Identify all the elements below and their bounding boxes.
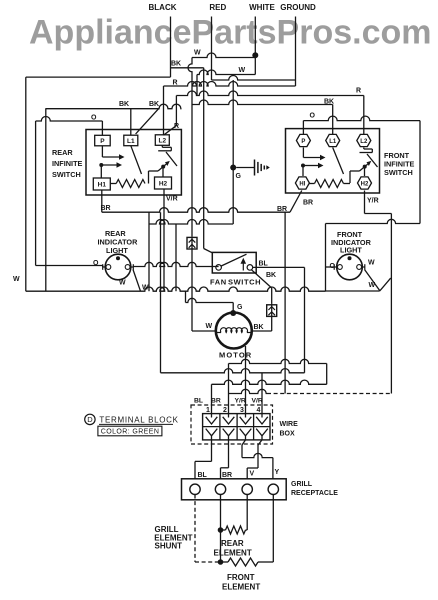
wire BR down from receptacle — [220, 495, 222, 563]
motor — [216, 313, 252, 349]
svg-text:BL: BL — [198, 472, 208, 479]
terminal H1 rear — [93, 178, 110, 190]
svg-text:P: P — [100, 138, 105, 145]
wire BK diagonal into rear L1 — [136, 109, 159, 134]
front switch resistor — [315, 180, 344, 188]
svg-text:TERMINAL BLOCK: TERMINAL BLOCK — [99, 416, 178, 425]
fan switch arrow — [242, 263, 244, 271]
wire WHITE drop — [254, 17, 256, 75]
node G junction dot — [230, 165, 236, 171]
svg-text:Y: Y — [275, 469, 280, 476]
svg-text:BLACK: BLACK — [149, 3, 177, 12]
rear switch L2 contact — [161, 145, 163, 147]
svg-text:L2: L2 — [360, 139, 368, 145]
wire line B upper — [229, 359, 327, 363]
junction dot front element — [218, 559, 224, 565]
ground symbol — [236, 167, 254, 169]
svg-text:W: W — [119, 280, 126, 287]
svg-text:GRILL: GRILL — [291, 481, 313, 488]
svg-text:WIRE: WIRE — [280, 421, 299, 428]
wire O stub front light — [326, 266, 335, 268]
wire R line to front L2 — [176, 91, 363, 95]
wire W2 white branch — [197, 70, 255, 75]
svg-text:L1: L1 — [329, 139, 337, 145]
wire Y/R from front H2 — [364, 191, 366, 214]
front switch P arm arrow — [302, 148, 304, 158]
terminal L1 rear — [124, 135, 138, 146]
wire v149 — [148, 212, 150, 291]
wire BL line A — [161, 369, 305, 373]
wire fan BK diagonal — [252, 270, 272, 288]
svg-text:R: R — [356, 88, 361, 95]
rear indicator light — [105, 254, 131, 280]
svg-text:L1: L1 — [127, 138, 135, 145]
wire BLACK drop — [170, 17, 172, 78]
wire BK left rail — [45, 108, 47, 291]
wire O left rail — [35, 121, 37, 266]
wire t3 to receptacle Y crossing — [242, 440, 246, 445]
rear switch blade from L1 — [131, 146, 142, 174]
wire drop O to P front — [302, 121, 304, 134]
terminal P rear — [95, 135, 111, 146]
svg-text:LIGHT: LIGHT — [106, 246, 128, 255]
svg-text:SWITCH: SWITCH — [228, 278, 261, 287]
svg-text:MOTOR: MOTOR — [219, 351, 252, 360]
wire box — [203, 414, 270, 440]
wire front light W diagonal — [365, 270, 380, 291]
wire ground horizontal A2 — [164, 82, 296, 87]
rear switch resistor — [116, 180, 145, 188]
terminal L1 front — [326, 134, 340, 146]
wire t4 drop — [261, 373, 263, 414]
svg-text:R: R — [173, 80, 178, 87]
wire W2 stub — [196, 75, 198, 96]
front switch H1 arm arrow — [301, 164, 305, 168]
svg-text:SHUNT: SHUNT — [155, 542, 183, 551]
junction dot rear element — [218, 527, 224, 533]
rear switch H2 arm arrow — [148, 171, 150, 184]
svg-text:BK: BK — [254, 324, 264, 331]
svg-text:H1: H1 — [98, 182, 107, 189]
wire BR bus — [102, 208, 290, 213]
svg-text:RECEPTACLE: RECEPTACLE — [291, 490, 338, 497]
svg-text:Y/R: Y/R — [367, 198, 379, 205]
svg-text:BR: BR — [303, 200, 313, 207]
svg-text:W: W — [206, 323, 213, 330]
wire O into rear light — [36, 265, 103, 267]
terminal L2 front — [357, 134, 371, 146]
wire W drop to motor — [188, 58, 192, 237]
wire drop BK to L1 rear — [130, 109, 132, 136]
svg-text:RED: RED — [209, 3, 226, 12]
rear infinite switch box — [86, 130, 181, 196]
svg-text:AppliancePartsPros.com: AppliancePartsPros.com — [29, 14, 431, 52]
wire fan BL drop — [304, 267, 306, 372]
terminal L2 rear — [155, 135, 169, 146]
terminal H1 front — [295, 177, 309, 189]
wire dashed jumper — [229, 389, 268, 393]
svg-text:L2: L2 — [159, 138, 167, 145]
terminal P front — [296, 134, 310, 146]
wire motor BK lead — [252, 330, 272, 332]
wire GROUND vertical — [232, 80, 234, 224]
svg-text:V: V — [250, 471, 255, 478]
front switch blade from L2 — [367, 154, 378, 167]
wire drop to rear L2 — [163, 86, 165, 135]
wire BR drop front — [284, 212, 286, 393]
svg-text:SWITCH: SWITCH — [384, 168, 413, 177]
terminal H2 rear — [155, 177, 172, 189]
svg-text:FAN: FAN — [210, 278, 227, 287]
wire W1 white branch — [192, 53, 255, 58]
svg-text:W: W — [194, 50, 201, 57]
svg-text:W: W — [369, 282, 376, 289]
receptacle contacts — [190, 484, 200, 494]
svg-text:4: 4 — [257, 407, 261, 414]
terminal block dashed outline — [191, 405, 273, 444]
svg-text:BR: BR — [222, 472, 232, 479]
svg-text:H2: H2 — [361, 181, 369, 187]
front element resistor — [228, 558, 258, 566]
wire YR rail down — [390, 214, 392, 394]
svg-text:LIGHT: LIGHT — [340, 246, 362, 255]
svg-text:WHITE: WHITE — [249, 3, 275, 12]
svg-text:BK: BK — [266, 272, 276, 279]
wire v176 — [175, 224, 177, 291]
terminal block label — [85, 414, 95, 424]
wire line4 bus — [149, 220, 233, 225]
wire BK top black branch — [171, 67, 204, 69]
wire drop O to P rear — [101, 121, 103, 135]
wire V/R drop from rear H2 — [163, 189, 165, 291]
rear switch blade from L2 — [166, 152, 177, 166]
svg-text:GROUND: GROUND — [280, 3, 316, 12]
terminal H2 front — [358, 177, 372, 189]
wire drop R to front L2 — [363, 96, 365, 135]
wire W left rail — [25, 77, 27, 291]
svg-text:COLOR: GREEN: COLOR: GREEN — [101, 429, 159, 436]
svg-text:ELEMENT: ELEMENT — [214, 549, 252, 558]
wire t3 drop — [245, 346, 247, 414]
wire BK line rear (left) — [46, 104, 182, 109]
wire rear light to fan switch — [133, 262, 218, 266]
svg-text:REAR: REAR — [221, 539, 244, 548]
svg-text:O: O — [91, 115, 97, 122]
wire t2 drop — [228, 364, 230, 414]
wire rear light W diagonal — [133, 270, 141, 292]
wire v160 — [160, 212, 162, 373]
rear element resistor — [226, 526, 246, 534]
wire W bus — [26, 287, 326, 291]
front switch blade from L1 — [333, 148, 344, 175]
svg-text:P: P — [301, 139, 305, 145]
wire O line front — [303, 116, 420, 121]
svg-text:O: O — [310, 113, 316, 120]
rear switch H1 arm arrow — [99, 163, 103, 167]
svg-text:1: 1 — [206, 407, 210, 414]
svg-text:2: 2 — [223, 407, 227, 414]
svg-text:W: W — [368, 260, 375, 267]
wire fan BL — [253, 266, 305, 268]
wire box arrows — [206, 414, 218, 424]
svg-text:BK: BK — [171, 61, 181, 68]
svg-text:REAR: REAR — [52, 148, 73, 157]
svg-text:BR: BR — [211, 398, 221, 405]
wire V down from receptacle — [246, 495, 248, 531]
front infinite switch box — [286, 129, 380, 193]
grill receptacle box — [182, 479, 287, 500]
connector plug motor lead 1 — [191, 236, 193, 331]
front indicator light — [337, 254, 363, 280]
svg-text:BK: BK — [119, 101, 129, 108]
svg-text:FRONT: FRONT — [227, 573, 255, 582]
wire line B lower to t1 — [212, 380, 327, 384]
svg-text:BK: BK — [324, 99, 334, 106]
wire O line rear — [36, 117, 103, 122]
svg-text:INFINITE: INFINITE — [52, 159, 83, 168]
svg-text:BOX: BOX — [280, 431, 296, 438]
svg-text:BK: BK — [149, 101, 159, 108]
wire front light box top — [326, 219, 421, 223]
grill element shunt dashed — [194, 495, 196, 563]
svg-text:BR: BR — [277, 206, 287, 213]
svg-text:SWITCH: SWITCH — [52, 170, 81, 179]
svg-text:R: R — [174, 123, 179, 130]
wire motor W lead — [192, 330, 216, 332]
svg-text:W: W — [13, 276, 20, 283]
wire t1 to receptacle BL — [211, 440, 213, 462]
svg-text:V/R: V/R — [252, 398, 263, 405]
wire front light bottom — [326, 290, 380, 292]
fan switch box — [212, 252, 256, 273]
connector plug motor lead 2 — [271, 304, 273, 331]
wire rear H1 to BR bus — [101, 190, 103, 212]
wire t2 to receptacle BR — [228, 440, 230, 468]
wire R diagonal to rear L2 — [164, 126, 177, 136]
wire t1 drop — [211, 384, 213, 413]
front switch L2 contact — [363, 148, 365, 150]
wire R vert rear — [175, 96, 177, 126]
wire right rail O — [419, 121, 421, 224]
svg-text:ELEMENT: ELEMENT — [222, 583, 260, 592]
motor junction dot — [230, 310, 236, 316]
wire Y down from receptacle — [272, 495, 274, 563]
svg-text:HI: HI — [299, 181, 305, 187]
wire motor G top — [186, 298, 234, 302]
svg-text:H2: H2 — [159, 181, 168, 188]
svg-text:V/R: V/R — [166, 196, 178, 203]
wire t4 to receptacle V crossing — [258, 440, 262, 445]
svg-text:D: D — [87, 415, 93, 424]
junction white dot — [252, 52, 258, 58]
wire red-ground link — [212, 76, 296, 81]
wire BK line to front L1 — [192, 100, 333, 104]
wire GROUND drop — [295, 17, 297, 87]
svg-text:3: 3 — [240, 407, 244, 414]
wire RED drop — [211, 17, 213, 81]
wire front light box left — [325, 224, 327, 292]
svg-text:BR: BR — [101, 205, 111, 212]
wire drop BK to front L1 — [332, 105, 334, 135]
rear switch P arm arrow — [101, 146, 103, 157]
svg-text:BL: BL — [194, 398, 203, 405]
wire BR diagonal to front H1 — [290, 191, 302, 213]
svg-text:BL: BL — [259, 261, 269, 268]
fan switch lever — [221, 254, 246, 266]
wire BK drop to fan — [203, 68, 205, 249]
svg-text:Y/R: Y/R — [235, 398, 246, 405]
svg-text:W: W — [239, 67, 246, 74]
svg-text:G: G — [236, 173, 242, 180]
svg-text:G: G — [237, 304, 243, 311]
front switch H2 arm arrow — [349, 171, 351, 183]
